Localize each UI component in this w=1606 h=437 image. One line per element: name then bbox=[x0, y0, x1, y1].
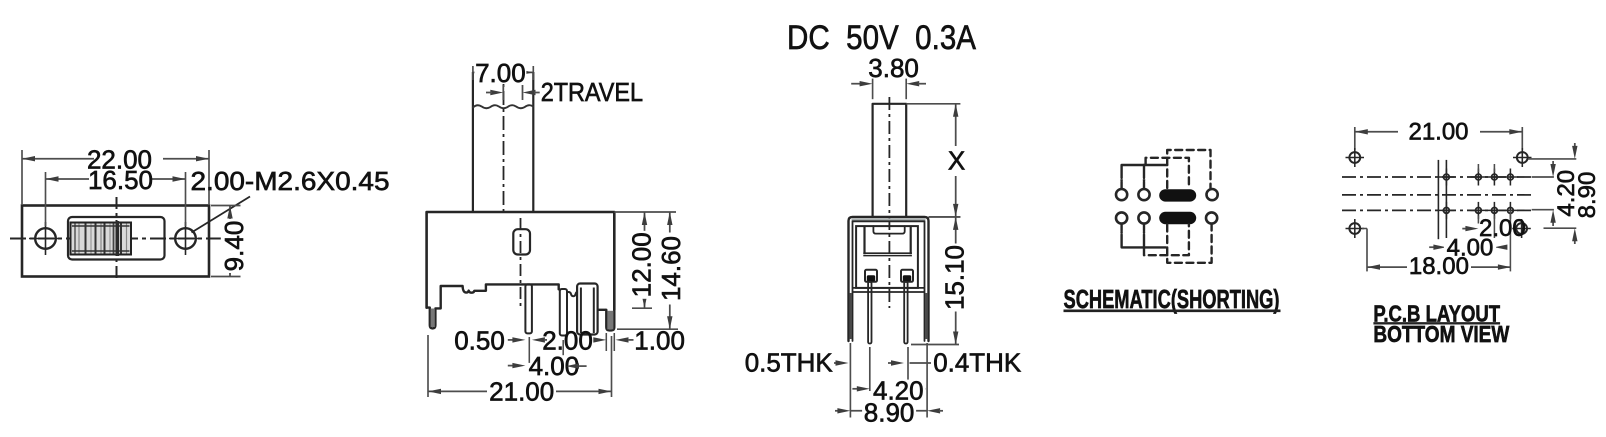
svg-text:8.90: 8.90 bbox=[1574, 172, 1601, 219]
pcb dim 4.20 extensions bbox=[1532, 161, 1556, 226]
schematic wiring bottom dashed inner bbox=[1144, 225, 1189, 256]
front view shaft bbox=[473, 72, 533, 212]
schematic wiring top dashed inner bbox=[1146, 158, 1189, 189]
terminal bracket bbox=[577, 284, 598, 335]
dim 3.80 bbox=[851, 53, 926, 99]
dim 7.00 bbox=[473, 58, 533, 88]
svg-text:0.4THK: 0.4THK bbox=[933, 348, 1022, 378]
pcb dim 8.90 extensions bbox=[1528, 143, 1578, 244]
svg-text:8.90: 8.90 bbox=[864, 398, 915, 428]
svg-text:3.80: 3.80 bbox=[868, 53, 919, 83]
label 2.00-M2.6X0.45 bbox=[191, 166, 390, 196]
side pin left bbox=[868, 282, 871, 344]
pcb dim 21.00 bbox=[1355, 119, 1523, 151]
dim 16.50 bbox=[46, 165, 186, 226]
pin 1 (center) bbox=[525, 284, 532, 333]
pcb pad extension ticks bbox=[1478, 164, 1510, 271]
label 2TRAVEL bbox=[541, 77, 643, 107]
svg-text:DC 50V 0.3A: DC 50V 0.3A bbox=[787, 19, 976, 57]
pcb centerline row2 bbox=[1342, 209, 1532, 211]
side view shaft bbox=[873, 104, 907, 217]
dim 22.00 bbox=[22, 145, 209, 205]
leader line to threaded hole bbox=[192, 197, 251, 233]
slider knob (knurled) bbox=[71, 221, 132, 256]
svg-text:21.00: 21.00 bbox=[489, 377, 554, 407]
front view body outline bbox=[427, 212, 615, 310]
base plate bbox=[853, 288, 925, 292]
dim 15.10 bbox=[911, 217, 970, 345]
pcb pads row2 bbox=[1438, 202, 1518, 219]
label 0.4THK bbox=[888, 348, 1022, 378]
caption P.C.B LAYOUT bbox=[1373, 300, 1500, 326]
shorting bar top bbox=[1159, 189, 1196, 201]
shaft break (wavy) line bbox=[473, 105, 533, 108]
top view vertical centerline bbox=[116, 197, 118, 281]
pcb label 8.90 bbox=[1574, 169, 1601, 221]
svg-text:SCHEMATIC(SHORTING): SCHEMATIC(SHORTING) bbox=[1064, 284, 1280, 314]
contact left bbox=[865, 270, 877, 282]
caption SCHEMATIC(SHORTING) bbox=[1064, 284, 1281, 314]
dim 0.50 bbox=[454, 326, 547, 356]
dim X bbox=[906, 104, 966, 217]
svg-text:14.60: 14.60 bbox=[656, 236, 686, 301]
pcb pad column lines bbox=[1438, 160, 1446, 247]
top view horizontal centerline bbox=[10, 238, 222, 240]
rating label DC 50V 0.3A bbox=[787, 19, 976, 57]
schematic wiring bottom solid bbox=[1122, 224, 1166, 247]
bottom shelf right bbox=[598, 309, 607, 311]
slider slot bbox=[68, 217, 165, 260]
dim 4.00 bbox=[508, 337, 587, 381]
dim 1.00 bbox=[593, 326, 685, 356]
svg-text:7.00: 7.00 bbox=[475, 58, 526, 88]
side frame top bar bbox=[849, 217, 929, 341]
notch between pin2 and bracket bbox=[567, 292, 577, 296]
svg-text:2.00-M2.6X0.45: 2.00-M2.6X0.45 bbox=[191, 166, 390, 196]
label 0.5THK bbox=[745, 348, 849, 378]
svg-text:0.50: 0.50 bbox=[454, 326, 505, 356]
svg-text:2TRAVEL: 2TRAVEL bbox=[541, 77, 643, 107]
side view centerline bbox=[888, 97, 890, 308]
svg-text:18.00: 18.00 bbox=[1409, 253, 1469, 280]
dim 21.00 bbox=[428, 335, 612, 407]
right mounting leg bbox=[606, 310, 614, 331]
left mounting leg fill bbox=[431, 309, 435, 328]
travel dimension ticks and arrows bbox=[486, 85, 540, 100]
svg-text:1.00: 1.00 bbox=[634, 326, 685, 356]
body centerline bbox=[520, 218, 522, 309]
pcb mounting hole TR bbox=[1513, 148, 1532, 167]
extension lines below side view bbox=[850, 343, 927, 418]
dim 12.00 bbox=[614, 212, 676, 308]
schematic stub dots bbox=[1120, 179, 1145, 233]
schematic wiring top solid bbox=[1122, 165, 1168, 189]
pcb centerline row1 bbox=[1342, 176, 1532, 178]
dim 14.60 bbox=[617, 212, 686, 329]
svg-text:16.50: 16.50 bbox=[88, 165, 153, 195]
mounting hole left bbox=[29, 222, 62, 255]
pcb mounting hole TL bbox=[1346, 148, 1365, 167]
pcb dim 18.00 bbox=[1362, 229, 1511, 281]
svg-text:0.5THK: 0.5THK bbox=[745, 348, 834, 378]
caption BOTTOM VIEW bbox=[1373, 321, 1509, 347]
schematic terminals bottom row bbox=[1116, 212, 1217, 223]
pin 2 bbox=[559, 289, 567, 336]
dim 2.00 (front) bbox=[542, 326, 593, 356]
dim 9.40 bbox=[211, 206, 249, 277]
schematic terminals top row bbox=[1116, 189, 1218, 200]
svg-text:12.00: 12.00 bbox=[627, 232, 657, 297]
pcb centerline row mid bbox=[1342, 194, 1532, 196]
pcb mounting hole BR bbox=[1512, 219, 1531, 238]
body slot detail bbox=[513, 229, 530, 254]
svg-text:BOTTOM VIEW: BOTTOM VIEW bbox=[1373, 321, 1509, 347]
svg-text:21.00: 21.00 bbox=[1408, 119, 1468, 146]
pcb mounting hole BL bbox=[1346, 219, 1365, 238]
svg-text:15.10: 15.10 bbox=[940, 245, 970, 310]
side pin right bbox=[904, 282, 907, 344]
svg-text:9.40: 9.40 bbox=[219, 221, 249, 272]
shaft centerline bbox=[503, 66, 505, 211]
pcb label 4.20 bbox=[1553, 168, 1580, 218]
dim 4.20 (side) bbox=[852, 376, 925, 406]
schematic wiring top dashed outer bbox=[1167, 150, 1210, 188]
side housing bbox=[856, 226, 918, 288]
pcb dim 4.00 bbox=[1429, 235, 1507, 262]
schematic wiring bottom dashed outer bbox=[1167, 225, 1211, 263]
dim 8.90 (side) bbox=[835, 398, 943, 428]
svg-text:X: X bbox=[948, 146, 965, 176]
mounting hole right bbox=[169, 222, 202, 255]
pcb dim 2.00 bbox=[1462, 215, 1525, 242]
front body bottom profile left bbox=[427, 284, 559, 328]
top view: switch body outline bbox=[22, 206, 209, 277]
shorting bar bottom bbox=[1159, 212, 1196, 224]
pcb pads row1 bbox=[1438, 169, 1518, 186]
contact right bbox=[901, 270, 913, 282]
